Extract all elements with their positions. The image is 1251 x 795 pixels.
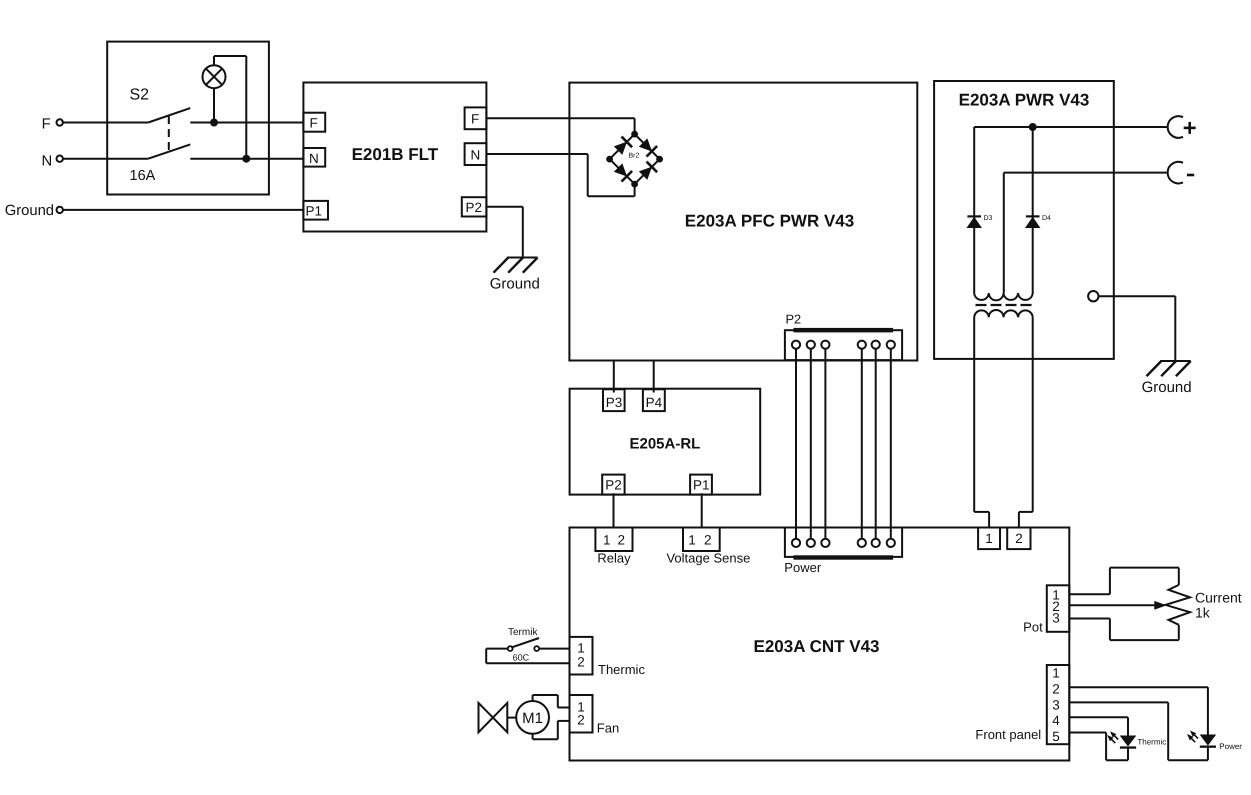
svg-text:Power: Power — [784, 560, 822, 575]
svg-text:Current: Current — [1195, 590, 1242, 606]
svg-text:P2: P2 — [605, 477, 622, 492]
svg-text:16A: 16A — [130, 168, 156, 184]
svg-text:1: 1 — [688, 532, 696, 547]
svg-text:D4: D4 — [1042, 215, 1051, 222]
svg-text:P1: P1 — [693, 477, 710, 492]
svg-text:N: N — [309, 151, 319, 166]
svg-text:F: F — [42, 117, 51, 133]
svg-text:Ground: Ground — [5, 203, 54, 219]
svg-text:Br2: Br2 — [629, 152, 640, 159]
svg-text:1k: 1k — [1195, 605, 1211, 621]
svg-text:E201B FLT: E201B FLT — [352, 145, 439, 164]
svg-text:60C: 60C — [513, 652, 530, 662]
svg-text:D3: D3 — [984, 215, 993, 222]
svg-text:Pot: Pot — [1023, 620, 1043, 635]
svg-text:S2: S2 — [130, 87, 150, 104]
svg-text:P4: P4 — [646, 395, 663, 410]
svg-text:Relay: Relay — [597, 550, 631, 565]
svg-text:N: N — [42, 154, 53, 170]
svg-text:2: 2 — [577, 654, 585, 669]
svg-text:2: 2 — [1052, 681, 1060, 696]
svg-text:F: F — [471, 112, 479, 127]
svg-text:3: 3 — [1052, 697, 1060, 712]
svg-text:1: 1 — [985, 531, 993, 546]
svg-text:P2: P2 — [466, 200, 483, 215]
svg-text:Fan: Fan — [597, 720, 619, 735]
svg-text:2: 2 — [704, 532, 712, 547]
svg-text:E203A CNT V43: E203A CNT V43 — [754, 637, 880, 656]
svg-text:Termik: Termik — [508, 627, 538, 638]
svg-text:2: 2 — [618, 532, 626, 547]
svg-text:N: N — [471, 147, 481, 162]
svg-text:Ground: Ground — [490, 276, 540, 293]
svg-text:P2: P2 — [786, 311, 802, 326]
svg-text:Voltage Sense: Voltage Sense — [666, 550, 750, 565]
svg-text:1: 1 — [1052, 666, 1060, 681]
svg-text:2: 2 — [1015, 531, 1023, 546]
svg-text:P3: P3 — [606, 395, 623, 410]
svg-text:Power: Power — [1219, 742, 1242, 751]
svg-text:Thermic: Thermic — [598, 662, 645, 677]
svg-text:Thermic: Thermic — [1137, 737, 1166, 746]
svg-text:E203A PWR V43: E203A PWR V43 — [959, 91, 1090, 110]
svg-text:M1: M1 — [522, 710, 543, 727]
svg-text:P1: P1 — [306, 203, 323, 218]
svg-text:Front panel: Front panel — [975, 727, 1041, 742]
svg-text:3: 3 — [1052, 611, 1060, 626]
svg-text:1: 1 — [603, 532, 611, 547]
svg-text:Ground: Ground — [1142, 379, 1192, 396]
svg-text:2: 2 — [577, 713, 585, 728]
svg-text:5: 5 — [1052, 729, 1060, 744]
svg-text:F: F — [310, 116, 318, 131]
svg-text:E205A-RL: E205A-RL — [629, 435, 700, 452]
svg-text:4: 4 — [1052, 713, 1060, 728]
svg-text:E203A PFC PWR V43: E203A PFC PWR V43 — [685, 212, 854, 231]
